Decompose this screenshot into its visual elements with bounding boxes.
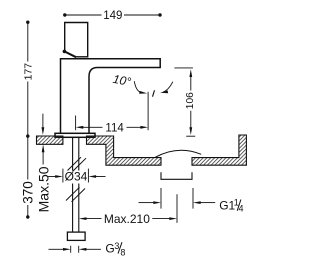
handle heel: [63, 50, 67, 54]
deck slab right + basin wall + bottom: [87, 136, 162, 165]
svg-text:8: 8: [120, 248, 125, 258]
angle tick mark: [153, 90, 155, 96]
drain center extension line: [176, 194, 178, 223]
dim O34 extension lines: [63, 169, 89, 183]
dim 114 line and arrows: [76, 126, 84, 129]
svg-text:4: 4: [239, 204, 244, 214]
svg-text:370: 370: [20, 181, 35, 204]
svg-text:106: 106: [185, 92, 196, 109]
dim 106 line and arrows: [189, 69, 192, 77]
angle left arc arrow: [134, 81, 140, 92]
drain stub bracket: [161, 172, 192, 179]
dim G1 1/4 extension lines: [161, 188, 193, 209]
svg-text:114: 114: [105, 122, 124, 134]
riser tube lower: [73, 184, 79, 233]
svg-text:149: 149: [103, 10, 122, 22]
svg-text:Max.50: Max.50: [35, 166, 51, 212]
dim O34 arrows: [47, 176, 56, 178]
svg-text:3: 3: [114, 241, 119, 251]
dim 114 extension line outlet: [147, 92, 149, 130]
dim 177-370 line: [27, 22, 29, 217]
basin bottom right + right wall: [192, 135, 246, 165]
svg-text:Max.210: Max.210: [104, 212, 150, 226]
svg-text:Ø34: Ø34: [65, 170, 88, 184]
waste plug dome: [155, 150, 201, 157]
faucet body and spout outline: [61, 59, 161, 134]
hose nut G3/8: [67, 232, 85, 240]
break slashes lower: [66, 187, 85, 202]
riser tube upper: [73, 137, 79, 170]
svg-text:177: 177: [22, 63, 34, 81]
base plate: [55, 133, 95, 137]
handle lever: [65, 23, 88, 57]
dim 106 bottom extension: [186, 135, 195, 137]
dim 106 top extension: [174, 67, 193, 69]
dim G1 1/4 arrows: [139, 202, 154, 204]
dim Max.210 line: [79, 217, 87, 220]
break slashes upper: [68, 157, 87, 171]
svg-text:G: G: [105, 241, 114, 255]
dim G3/8 arrows: [49, 248, 64, 250]
dim 114 extension line center: [75, 116, 77, 131]
dim Max.50 arrows: [42, 114, 44, 128]
dim 149 line: [65, 14, 160, 16]
handle notch wedge: [65, 52, 76, 58]
deck slab left: [37, 136, 63, 144]
angle right arc arrow: [163, 82, 173, 93]
